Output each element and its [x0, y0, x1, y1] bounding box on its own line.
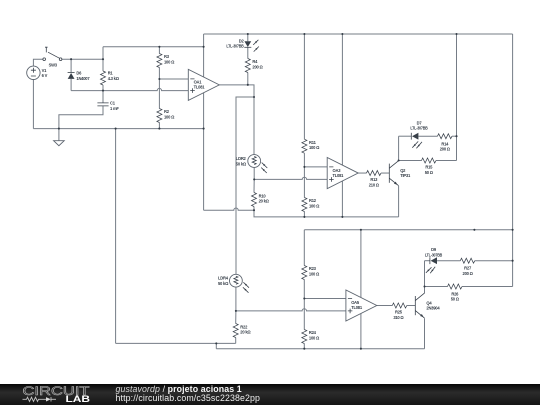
wire: right-mid vertical from top rail to D7/R14 node [456, 34, 458, 136]
wire: C1 bottom lead to ground node [59, 106, 103, 129]
svg-text:TL081: TL081 [333, 173, 345, 178]
svg-text:4.3 kΩ: 4.3 kΩ [108, 76, 120, 81]
svg-text:100 Ω: 100 Ω [309, 336, 320, 341]
svg-text:R23: R23 [309, 266, 317, 271]
LED D9 LTL-307BB [425, 247, 442, 273]
voltage source V1 [27, 66, 48, 79]
resistor R15 50 [422, 158, 437, 175]
svg-text:100 Ω: 100 Ω [164, 115, 175, 120]
svg-text:20 kΩ: 20 kΩ [240, 330, 251, 335]
svg-text:1 mF: 1 mF [110, 106, 119, 111]
wire: node D6/R1/C1 to OA1 + input (hop over R3-R2 column) [71, 88, 188, 90]
resistor R10 20k [252, 193, 270, 207]
wire: Q2 emitter down to mid ground rail [398, 186, 400, 217]
resistor R1 4.3k [101, 71, 120, 85]
wire: Q2 collector node column up to D7 level [398, 136, 400, 160]
photoresistor LDR2 50k [236, 155, 267, 173]
svg-text:R13: R13 [370, 177, 378, 182]
wire: C1 top lead [102, 91, 104, 103]
wire: output node branch to LDR4 long vertical [236, 97, 254, 274]
wire: D9 left lead [425, 260, 430, 262]
svg-text:R11: R11 [309, 140, 317, 145]
wire: OA3 power column [341, 34, 343, 217]
svg-text:50 Ω: 50 Ω [425, 170, 434, 175]
op-amp OA1 TL081 [188, 69, 219, 100]
svg-text:200 Ω: 200 Ω [463, 271, 474, 276]
wire: D6 top lead [70, 59, 72, 72]
footer bar [0, 384, 540, 405]
photoresistor LDR4 50k [218, 274, 249, 292]
wire: R12 bottom lead [303, 212, 305, 217]
svg-text:R10: R10 [259, 193, 267, 198]
svg-text:LDR2: LDR2 [236, 156, 247, 161]
svg-text:100 Ω: 100 Ω [309, 204, 320, 209]
wire: R4 bottom lead [247, 73, 249, 85]
wire: OA3 plus input from LDR2/R10 node (hop over R11-R12 column) [254, 177, 327, 179]
wire: R24 bottom lead [303, 344, 305, 349]
wire: bottom section top rail y=229.8 [304, 229, 512, 231]
wire: LDR2 bottom to junction [253, 167, 255, 179]
transistor Q4 2N3904 [415, 293, 440, 318]
resistor R2 100 [157, 109, 175, 123]
svg-text:R2: R2 [164, 109, 170, 114]
svg-text:6 V: 6 V [42, 73, 48, 78]
wire: ground symbol stem [58, 129, 60, 141]
wire: R23 bottom lead [303, 280, 305, 299]
svg-text:SW3: SW3 [49, 63, 58, 68]
wire: switch right terminal to R1 top [62, 58, 103, 60]
capacitor C1 [97, 101, 119, 111]
wire: OA5 power column [360, 230, 362, 349]
wire: Q4 collector column up to D9 level [424, 261, 426, 294]
wire: R15 right lead [436, 160, 457, 162]
wire: OA5 minus input [304, 298, 346, 300]
svg-text:210 Ω: 210 Ω [369, 182, 380, 187]
wire: R3 bottom lead to minus node [158, 68, 160, 80]
op-amp OA3 TL081 [327, 158, 358, 189]
svg-text:R12: R12 [309, 198, 317, 203]
wire: OA1 power column [203, 34, 205, 210]
svg-text:50 kΩ: 50 kΩ [218, 281, 229, 286]
svg-text:LTL-307BB: LTL-307BB [425, 253, 442, 258]
svg-text:LDR4: LDR4 [218, 276, 229, 281]
wire: OA5 plus input from LDR4/R22 node (hop over R23-R24 column) [236, 309, 346, 311]
resistor R26 50 [448, 284, 463, 302]
svg-text:100 Ω: 100 Ω [164, 60, 175, 65]
wire: output node down to LDR2 [253, 97, 255, 155]
wire: V1 bottom lead to ground rail [32, 79, 34, 128]
op-amp OA5 TL081 [346, 290, 377, 321]
wire: R14 right lead [452, 135, 457, 137]
wire: ground rail y=128.6 [33, 128, 203, 130]
svg-text:D6: D6 [76, 71, 82, 76]
wire: R2 bottom lead [158, 123, 160, 129]
wire: R25 to Q4 base [407, 305, 416, 307]
wire: R23 top lead [303, 230, 305, 266]
svg-text:R26: R26 [451, 291, 459, 296]
resistor R14 200 [438, 134, 453, 152]
wire: R23/R24 connector [303, 299, 305, 330]
wire: R13 to Q2 base [381, 172, 389, 174]
wire: collector node to R26 [425, 286, 448, 288]
svg-text:1N4007: 1N4007 [76, 76, 90, 81]
LED D2 LTL-307BB [226, 38, 259, 51]
transistor Q2 TIP31 [389, 161, 411, 186]
svg-text:200 Ω: 200 Ω [440, 147, 451, 152]
svg-text:D7: D7 [417, 120, 423, 125]
wire: mid ground extension (hop over LDR4 column) [204, 208, 399, 217]
svg-text:TL081: TL081 [194, 85, 206, 90]
resistor R25 310 [392, 303, 407, 320]
wire: OA3 output to R13 [358, 172, 366, 174]
wire: R11/R12 connector [303, 167, 305, 198]
svg-text:TL081: TL081 [351, 305, 363, 310]
svg-text:310 Ω: 310 Ω [393, 315, 404, 320]
svg-text:D9: D9 [431, 247, 437, 252]
svg-text:20 kΩ: 20 kΩ [259, 199, 270, 204]
svg-text:C1: C1 [110, 101, 116, 106]
wire: OA1 minus input [159, 78, 188, 80]
wire: D2 top lead [247, 34, 249, 41]
svg-text:2N3904: 2N3904 [426, 306, 440, 311]
wire: R27 right lead to right vertical [475, 260, 513, 262]
resistor R22 20k [233, 324, 251, 338]
wire: bottom ground rail [216, 348, 424, 350]
wire: left rail into bottom section with step [116, 343, 236, 348]
wire: R11 top lead from top rail [303, 34, 305, 139]
resistor R12 100 [302, 198, 320, 212]
svg-text:200 Ω: 200 Ω [252, 65, 263, 70]
svg-text:LTL-307BB: LTL-307BB [410, 126, 427, 131]
wire: R22 leads [235, 311, 237, 344]
resistor R3 100 [157, 54, 175, 68]
diode D6 1N4007 [68, 71, 91, 81]
svg-text:LAB: LAB [66, 394, 91, 404]
wire: collector node to D7 cathode [399, 135, 411, 137]
resistor R27 200 [460, 258, 475, 276]
svg-text:R14: R14 [441, 141, 449, 146]
wire: R10 top lead [253, 179, 255, 192]
wire: D7 anode to R14 [419, 135, 438, 137]
wire: R26 right lead [462, 286, 513, 288]
wire: Q4 emitter down to bottom rail [424, 318, 426, 348]
svg-text:D2: D2 [239, 38, 245, 43]
wire: top rail y=34 [204, 33, 513, 35]
resistor R11 100 [302, 139, 320, 153]
wire: R1 bottom lead [102, 85, 104, 91]
wire: R10 bottom lead [253, 207, 255, 211]
resistor R23 100 [302, 266, 320, 280]
resistor R13 210 [367, 171, 382, 188]
switch SW3 [43, 47, 62, 67]
svg-text:R1: R1 [108, 71, 114, 76]
wire: OA3 minus input [304, 166, 327, 168]
wire: D9 anode to R27 [437, 260, 460, 262]
wire: right vertical from top rail down to R26 [512, 34, 514, 287]
wire: R11 bottom lead [303, 153, 305, 167]
svg-text:R4: R4 [252, 59, 258, 64]
svg-text:Q2: Q2 [400, 168, 406, 173]
svg-text:R15: R15 [425, 165, 433, 170]
resistor R4 200 [245, 59, 263, 73]
wire: left rail y=46.8 to OA1 power column [103, 46, 204, 48]
wire: OA5 output to R25 [377, 305, 393, 307]
wire: long left vertical to bottom section [115, 129, 117, 344]
svg-text:R3: R3 [164, 54, 170, 59]
wire: R3 top lead [158, 47, 160, 54]
LED D7 LTL-307BB [410, 120, 427, 148]
svg-text:R27: R27 [464, 266, 472, 271]
resistor R24 100 [302, 330, 320, 344]
wire: LDR4 bottom to junction [235, 287, 237, 311]
wire: V1 top lead to switch [33, 59, 43, 66]
svg-text:LTL-307BB: LTL-307BB [226, 44, 243, 49]
svg-text:R24: R24 [309, 330, 317, 335]
svg-text:100 Ω: 100 Ω [309, 272, 320, 277]
wire: D7/R14 node down to R15 [456, 136, 458, 160]
wire: riser from R1-top node up to left rail [102, 47, 104, 59]
svg-text:V1: V1 [42, 68, 48, 73]
wire: D2 to R4 [247, 48, 249, 59]
wire: OA1 output to node column [219, 85, 254, 97]
svg-text:50 kΩ: 50 kΩ [236, 161, 247, 166]
ground [54, 141, 65, 146]
svg-text:50 Ω: 50 Ω [451, 297, 460, 302]
svg-text:Q4: Q4 [426, 300, 432, 305]
wire: D6 bottom lead [70, 79, 72, 91]
wire: collector node to R15 [399, 160, 422, 162]
svg-text:TIP31: TIP31 [400, 173, 411, 178]
CircuitLab logo [23, 385, 91, 404]
svg-text:R22: R22 [240, 324, 248, 329]
wire: R1 top lead [102, 59, 104, 71]
wire: R3/R2 connector column [158, 79, 160, 109]
svg-text:R25: R25 [395, 310, 403, 315]
svg-text:100 Ω: 100 Ω [309, 145, 320, 150]
